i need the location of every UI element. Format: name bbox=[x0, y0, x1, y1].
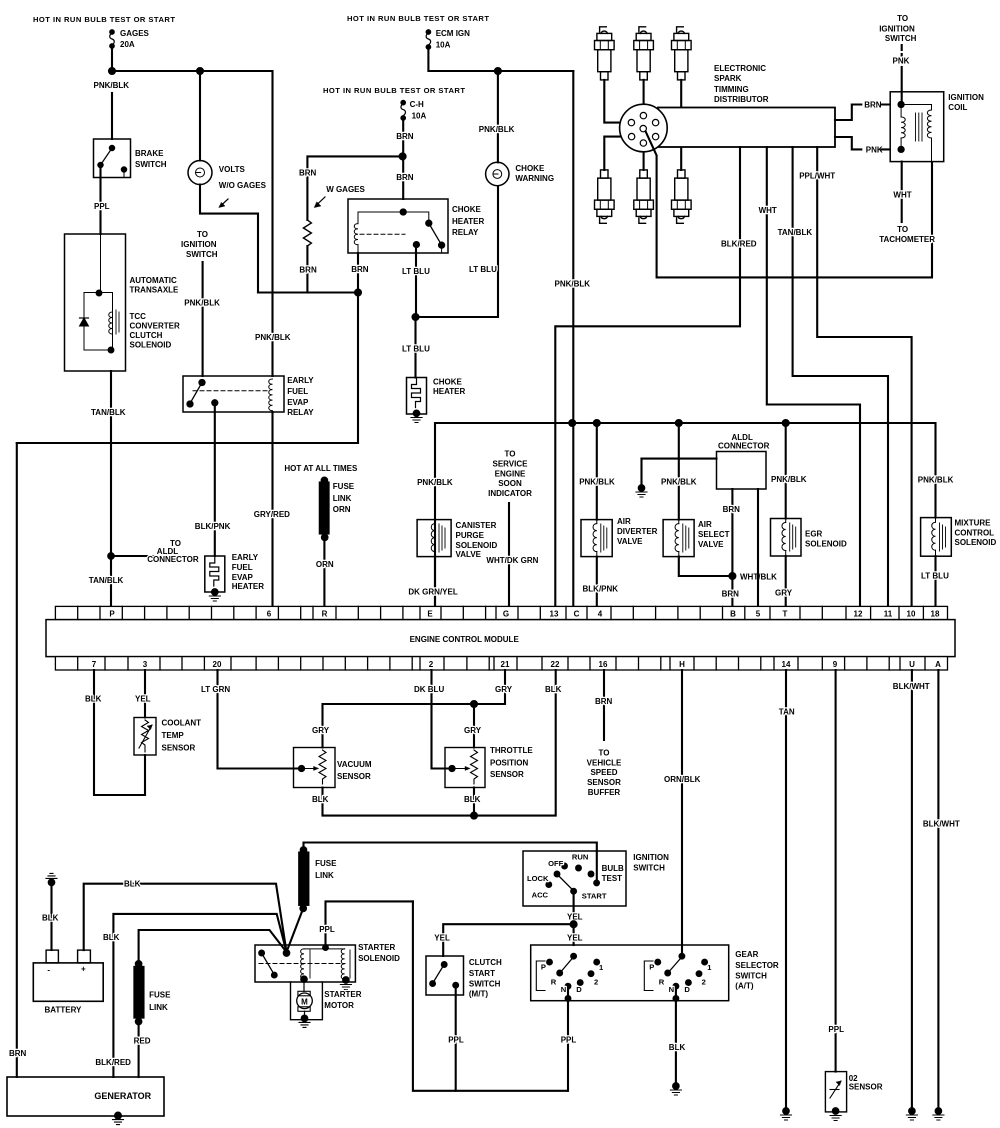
wire PNK/BLK to air diverter valve bbox=[596, 423, 598, 520]
svg-text:TO: TO bbox=[197, 230, 208, 239]
wire PPL to starter solenoid bbox=[326, 901, 413, 947]
svg-text:BLK/WHT: BLK/WHT bbox=[893, 682, 930, 691]
svg-text:P: P bbox=[649, 962, 654, 971]
svg-text:BLK/WHT: BLK/WHT bbox=[923, 820, 960, 829]
svg-text:DK BLU: DK BLU bbox=[414, 685, 444, 694]
svg-text:-: - bbox=[47, 966, 50, 975]
wire ORN fuse link to ECM pin R bbox=[323, 537, 325, 606]
vacuum sensor bbox=[294, 748, 372, 788]
svg-text:PNK/BLK: PNK/BLK bbox=[184, 299, 220, 308]
wire spark plug 4 to distributor bbox=[604, 137, 627, 170]
wire YEL ignition switch down bbox=[573, 891, 575, 945]
ECM bottom pin row bbox=[55, 657, 947, 670]
air diverter valve bbox=[581, 517, 658, 557]
svg-text:HOT AT ALL TIMES: HOT AT ALL TIMES bbox=[284, 464, 358, 473]
svg-text:D: D bbox=[576, 985, 582, 994]
wire WHT distributor to ECM pin 12 bbox=[767, 147, 860, 606]
svg-text:BRN: BRN bbox=[351, 265, 369, 274]
ECM top pin labels bbox=[109, 609, 940, 618]
wire spark plug 2 to distributor bbox=[643, 80, 645, 111]
svg-text:BLK: BLK bbox=[85, 695, 102, 704]
svg-text:TAN: TAN bbox=[779, 707, 795, 716]
svg-text:FUSE: FUSE bbox=[149, 991, 171, 1000]
wire coil secondary: distributor rotor to ignition coil bbox=[646, 131, 932, 277]
svg-text:TEST: TEST bbox=[602, 874, 623, 883]
lamp VOLTS W/O GAGES bbox=[188, 71, 267, 208]
fuse C-H 10A bbox=[401, 100, 427, 121]
svg-text:10: 10 bbox=[907, 609, 916, 618]
svg-text:U: U bbox=[909, 660, 915, 669]
svg-text:SWITCH: SWITCH bbox=[186, 250, 218, 259]
ground at generator bbox=[113, 1113, 124, 1125]
coolant temp sensor bbox=[134, 718, 201, 756]
svg-text:SOLENOID: SOLENOID bbox=[805, 540, 847, 549]
wire BRN resistor down to BRN bus bbox=[306, 246, 308, 293]
svg-text:TAN/BLK: TAN/BLK bbox=[89, 576, 124, 585]
spark plug 1 (top row) bbox=[595, 27, 615, 80]
svg-text:G: G bbox=[503, 609, 509, 618]
svg-text:GENERATOR: GENERATOR bbox=[94, 1091, 151, 1101]
wire BRN branch left to W GAGES resistor bbox=[307, 156, 402, 220]
svg-text:LT BLU: LT BLU bbox=[469, 265, 497, 274]
wire GRY pin 21 to sensors supply bbox=[323, 670, 506, 748]
wire WHT coil to tachometer bbox=[901, 162, 903, 222]
fuse GAGES 20A bbox=[110, 29, 150, 49]
wire WHT/DK GRN service indicator to ECM pin G bbox=[508, 503, 510, 606]
wire PPL gear selector N to bottom bus bbox=[567, 986, 569, 1091]
svg-text:BRN: BRN bbox=[396, 173, 414, 182]
svg-text:SELECTOR: SELECTOR bbox=[735, 961, 779, 970]
svg-text:VALVE: VALVE bbox=[698, 540, 724, 549]
fuse link (starter feed) bbox=[299, 847, 337, 911]
canister purge solenoid valve bbox=[417, 520, 497, 559]
svg-text:BRN: BRN bbox=[723, 505, 741, 514]
wire BRN pin 16 to speed buffer bbox=[603, 670, 605, 740]
svg-text:BRN: BRN bbox=[299, 266, 317, 275]
svg-text:CONNECTOR: CONNECTOR bbox=[147, 555, 199, 564]
svg-text:(M/T): (M/T) bbox=[469, 990, 488, 999]
svg-text:3: 3 bbox=[143, 660, 148, 669]
label TO VEHICLE SPEED SENSOR BUFFER bbox=[587, 749, 622, 797]
junction node GRY (474,704) bbox=[471, 701, 477, 707]
dashed lead from ignition switch bbox=[901, 45, 903, 56]
svg-text:PPL: PPL bbox=[319, 925, 335, 934]
starter motor bbox=[291, 982, 362, 1020]
wire PNK/BLK distribution bus y=423 bbox=[435, 423, 936, 606]
junction node (572.2,423) bbox=[569, 420, 575, 426]
svg-text:7: 7 bbox=[92, 660, 97, 669]
wire spark plug 1 to distributor bbox=[604, 80, 627, 123]
svg-text:PNK/BLK: PNK/BLK bbox=[94, 81, 130, 90]
svg-text:MIXTURE: MIXTURE bbox=[955, 518, 992, 527]
svg-text:SERVICE: SERVICE bbox=[493, 459, 529, 468]
svg-text:BLK/PNK: BLK/PNK bbox=[195, 522, 231, 531]
svg-text:TRANSAXLE: TRANSAXLE bbox=[130, 286, 180, 295]
svg-text:DK GRN/YEL: DK GRN/YEL bbox=[408, 588, 457, 597]
svg-text:VACUUM: VACUUM bbox=[337, 760, 372, 769]
svg-text:TO: TO bbox=[897, 14, 908, 23]
svg-text:14: 14 bbox=[782, 660, 791, 669]
O2 sensor bbox=[825, 1072, 882, 1112]
svg-text:HOT IN RUN BULB TEST OR START: HOT IN RUN BULB TEST OR START bbox=[33, 15, 175, 24]
brake switch BRAKE SWITCH bbox=[94, 139, 167, 178]
TCC converter clutch solenoid (inside transaxle) bbox=[80, 234, 180, 352]
wire BLK/PNK relay to EFE heater bbox=[214, 403, 216, 556]
svg-text:LINK: LINK bbox=[149, 1003, 168, 1012]
svg-text:20: 20 bbox=[213, 660, 222, 669]
svg-text:R: R bbox=[322, 609, 328, 618]
svg-text:BLK: BLK bbox=[312, 795, 329, 804]
svg-text:TAN/BLK: TAN/BLK bbox=[778, 228, 813, 237]
junction dot at gear selector bottom edge (right) bbox=[674, 996, 679, 1001]
ECM bottom pin labels bbox=[92, 660, 941, 669]
svg-text:TCC: TCC bbox=[130, 312, 147, 321]
wire BLK/WHT pin U to ground bbox=[911, 670, 913, 1108]
svg-text:POSITION: POSITION bbox=[490, 759, 528, 768]
svg-text:START: START bbox=[469, 969, 495, 978]
svg-text:IGNITION: IGNITION bbox=[879, 24, 915, 33]
svg-text:GRY/RED: GRY/RED bbox=[254, 510, 290, 519]
svg-text:SENSOR: SENSOR bbox=[849, 1082, 883, 1091]
svg-text:VEHICLE: VEHICLE bbox=[587, 758, 622, 767]
ground at choke heater bbox=[411, 411, 422, 423]
wire horizontal BRN bus y=292.5 bbox=[258, 291, 358, 293]
svg-text:AIR: AIR bbox=[698, 520, 712, 529]
wire LT BLU down to choke heater bbox=[414, 317, 416, 378]
wire GRY branch to TPS bbox=[473, 704, 475, 748]
svg-text:HEATER: HEATER bbox=[232, 582, 265, 591]
svg-text:PURGE: PURGE bbox=[456, 531, 485, 540]
early fuel evap relay box bbox=[183, 376, 314, 417]
svg-text:ORN: ORN bbox=[333, 505, 351, 514]
wire PNK/BLK to EGR solenoid bbox=[785, 423, 787, 519]
spark plug 5 (bottom row) bbox=[634, 170, 654, 223]
wire BLK battery negative to ground bbox=[50, 882, 52, 950]
svg-text:BRN: BRN bbox=[864, 101, 882, 110]
ECM main box ENGINE CONTROL MODULE bbox=[46, 620, 955, 657]
ALDL connector box bbox=[717, 433, 770, 489]
svg-text:AUTOMATIC: AUTOMATIC bbox=[130, 276, 177, 285]
svg-text:LINK: LINK bbox=[333, 494, 352, 503]
svg-text:WHT: WHT bbox=[893, 190, 911, 199]
wire branch to ALDL connector bbox=[111, 555, 156, 557]
svg-text:GRY: GRY bbox=[464, 726, 482, 735]
svg-text:PPL/WHT: PPL/WHT bbox=[799, 172, 835, 181]
wire BLK generator to starter solenoid bbox=[113, 914, 286, 1077]
ignition switch box bbox=[523, 851, 669, 906]
spark plug 6 (bottom row) bbox=[672, 170, 692, 223]
svg-text:SWITCH: SWITCH bbox=[633, 863, 665, 872]
wire PNK/BLK x=573.3 down to ECM pin C bbox=[572, 71, 574, 606]
wire DK GRN/YEL to ECM pin E bbox=[434, 557, 436, 606]
ground at gear selector BLK bbox=[670, 1083, 681, 1095]
wire PPL clutch switch to bottom bus bbox=[455, 985, 457, 1091]
wire PPL pin 9 to O2 sensor bbox=[835, 670, 837, 1072]
svg-text:R: R bbox=[551, 977, 557, 986]
wire spark plug 5 to distributor bbox=[643, 148, 645, 170]
svg-text:GAGES: GAGES bbox=[120, 29, 150, 38]
svg-text:P: P bbox=[541, 962, 546, 971]
junction node LT BLU (415.5,317) bbox=[413, 314, 419, 320]
ground at pin A wire bbox=[933, 1108, 944, 1120]
svg-text:COIL: COIL bbox=[948, 103, 967, 112]
svg-text:BULB: BULB bbox=[602, 864, 624, 873]
svg-text:PNK/BLK: PNK/BLK bbox=[661, 477, 697, 486]
svg-text:DIVERTER: DIVERTER bbox=[617, 527, 658, 536]
clutch start switch bbox=[426, 956, 502, 999]
svg-text:BLK/PNK: BLK/PNK bbox=[583, 585, 619, 594]
svg-text:LT BLU: LT BLU bbox=[921, 572, 949, 581]
wire horizontal bus y=71 to x=272 bbox=[112, 70, 272, 72]
svg-text:VOLTS: VOLTS bbox=[219, 165, 246, 174]
junction node choke warning branch (497.9,71) bbox=[495, 68, 501, 74]
svg-text:CANISTER: CANISTER bbox=[456, 521, 497, 530]
mixture control solenoid bbox=[921, 518, 997, 557]
svg-text:STARTER: STARTER bbox=[358, 943, 395, 952]
svg-text:LOCK: LOCK bbox=[527, 874, 549, 883]
wire fuse link to starter solenoid terminal bbox=[287, 908, 304, 952]
svg-text:EGR: EGR bbox=[805, 530, 823, 539]
gear selector switch box bbox=[531, 945, 779, 1001]
svg-text:+: + bbox=[81, 965, 86, 974]
svg-text:SOLENOID: SOLENOID bbox=[456, 541, 498, 550]
wire BLK ECM pin 7 to coolant sensor return bbox=[94, 670, 145, 795]
svg-text:21: 21 bbox=[501, 660, 510, 669]
terminal link PNK distributor to ignition coil bbox=[835, 137, 901, 154]
svg-text:BRN: BRN bbox=[595, 697, 613, 706]
ground at starter solenoid bbox=[340, 985, 351, 990]
svg-text:CLUTCH: CLUTCH bbox=[469, 958, 502, 967]
junction node (596.8,423) bbox=[594, 420, 600, 426]
svg-text:VALVE: VALVE bbox=[617, 537, 643, 546]
svg-text:CONNECTOR: CONNECTOR bbox=[718, 442, 770, 451]
wire PPL/WHT distributor to ECM pin 10 bbox=[817, 147, 911, 606]
svg-text:BRN: BRN bbox=[9, 1049, 27, 1058]
svg-text:N: N bbox=[561, 985, 566, 994]
wire PNK into ignition coil bbox=[901, 67, 903, 105]
svg-text:WHT/DK GRN: WHT/DK GRN bbox=[486, 556, 538, 565]
svg-text:P: P bbox=[109, 609, 115, 618]
svg-text:LINK: LINK bbox=[315, 871, 334, 880]
wire PPL brake switch to transaxle bbox=[99, 167, 101, 234]
svg-text:13: 13 bbox=[550, 609, 559, 618]
wire DK BLU pin 2 to TPS bbox=[432, 670, 451, 769]
svg-text:C-H: C-H bbox=[410, 100, 424, 109]
svg-text:12: 12 bbox=[854, 609, 863, 618]
svg-text:FUEL: FUEL bbox=[287, 387, 308, 396]
svg-text:T: T bbox=[783, 609, 788, 618]
svg-text:GRY: GRY bbox=[775, 589, 793, 598]
wire RED fuse link to generator bbox=[138, 1022, 140, 1078]
svg-text:TEMP: TEMP bbox=[162, 731, 185, 740]
spark plug 2 (top row) bbox=[634, 27, 654, 80]
svg-text:CHOKE: CHOKE bbox=[515, 164, 545, 173]
svg-text:RED: RED bbox=[134, 1036, 151, 1045]
svg-text:BRN: BRN bbox=[299, 169, 317, 178]
svg-text:AIR: AIR bbox=[617, 517, 631, 526]
wire TO IGNITION SWITCH to EFE relay bbox=[202, 262, 204, 376]
svg-text:LT BLU: LT BLU bbox=[402, 345, 430, 354]
svg-text:PNK/BLK: PNK/BLK bbox=[255, 333, 291, 342]
fuse link ORN bbox=[320, 478, 355, 541]
svg-text:SENSOR: SENSOR bbox=[162, 744, 196, 753]
svg-text:EVAP: EVAP bbox=[232, 573, 254, 582]
svg-text:2: 2 bbox=[429, 660, 434, 669]
svg-text:BLK: BLK bbox=[669, 1043, 686, 1052]
ignition coil U1 bbox=[890, 92, 984, 162]
svg-text:N: N bbox=[669, 985, 674, 994]
wire spark plug 6 to distributor bbox=[660, 137, 681, 170]
svg-text:BLK: BLK bbox=[545, 685, 562, 694]
wire BRN ALDL to ECM pin B bbox=[731, 489, 733, 606]
gear selector left bank contacts bbox=[536, 954, 604, 994]
svg-text:IGNITION: IGNITION bbox=[181, 240, 217, 249]
wire PPL bottom bus bbox=[413, 901, 567, 1090]
svg-text:W GAGES: W GAGES bbox=[326, 185, 365, 194]
svg-text:TAN/BLK: TAN/BLK bbox=[91, 408, 126, 417]
junction node YEL (575.2,924.2) bbox=[571, 921, 577, 927]
svg-text:BLK: BLK bbox=[124, 880, 141, 889]
svg-text:SWITCH: SWITCH bbox=[469, 980, 501, 989]
svg-text:H: H bbox=[679, 660, 685, 669]
ground at battery negative bbox=[46, 873, 57, 885]
distributor cap circle bbox=[620, 104, 668, 152]
wire LT GRN pin 20 to vacuum sensor bbox=[218, 670, 300, 769]
label W GAGES with arrow bbox=[314, 185, 365, 208]
svg-text:INDICATOR: INDICATOR bbox=[488, 489, 532, 498]
svg-text:ENGINE: ENGINE bbox=[495, 469, 526, 478]
svg-text:SENSOR: SENSOR bbox=[587, 778, 621, 787]
svg-text:PNK/BLK: PNK/BLK bbox=[579, 477, 615, 486]
svg-text:VALVE: VALVE bbox=[456, 550, 482, 559]
wire air select valve to WHT/BLK junction bbox=[679, 557, 733, 576]
terminal link BRN distributor to ignition coil bbox=[835, 101, 901, 121]
resistor W GAGES bbox=[303, 220, 311, 246]
svg-text:SENSOR: SENSOR bbox=[337, 772, 371, 781]
throttle position sensor bbox=[445, 746, 533, 788]
wire BLK gear selector right N to ground bbox=[675, 986, 677, 1083]
svg-text:IGNITION: IGNITION bbox=[948, 93, 984, 102]
svg-text:16: 16 bbox=[599, 660, 608, 669]
wire BRN relay coil output down to BRN bus bbox=[357, 253, 359, 293]
ground branch at ALDL bbox=[636, 459, 647, 497]
svg-text:EVAP: EVAP bbox=[287, 398, 309, 407]
wire TAN/BLK distributor to ECM pin 11 bbox=[793, 147, 888, 606]
fuse link (generator RED) bbox=[134, 961, 171, 1024]
svg-text:PNK/BLK: PNK/BLK bbox=[479, 125, 515, 134]
wire ECM IGN to PNK/BLK bus bbox=[428, 47, 573, 71]
svg-text:TACHOMETER: TACHOMETER bbox=[879, 235, 935, 244]
wire BRN from junction down to y=443 bus bbox=[357, 293, 359, 444]
svg-text:MOTOR: MOTOR bbox=[324, 1001, 354, 1010]
svg-text:IGNITION: IGNITION bbox=[633, 853, 669, 862]
svg-text:PPL: PPL bbox=[828, 1025, 844, 1034]
wire ORN/BLK pin H to gear selector switch bbox=[681, 670, 683, 956]
svg-text:COOLANT: COOLANT bbox=[162, 719, 202, 728]
svg-text:RELAY: RELAY bbox=[452, 228, 479, 237]
wire BRN from C-H fuse down bbox=[402, 118, 404, 199]
wire TAN/BLK transaxle down to ECM pin P bbox=[110, 371, 112, 606]
gear selector right bank contacts bbox=[644, 954, 712, 994]
svg-text:R: R bbox=[659, 977, 665, 986]
svg-text:5: 5 bbox=[756, 609, 761, 618]
junction node (785.7,423) bbox=[783, 420, 789, 426]
wire ALDL to ECM pin 5 bbox=[757, 489, 759, 606]
svg-text:BATTERY: BATTERY bbox=[45, 1006, 83, 1015]
wire long horizontal bus y=443 bbox=[17, 442, 358, 444]
choke heater relay internals bbox=[354, 209, 444, 253]
generator bbox=[7, 1077, 164, 1116]
label TO SERVICE ENGINE SOON INDICATOR bbox=[488, 450, 532, 498]
svg-text:W/O GAGES: W/O GAGES bbox=[219, 181, 267, 190]
svg-text:6: 6 bbox=[267, 609, 272, 618]
svg-text:HOT IN RUN BULB TEST OR START: HOT IN RUN BULB TEST OR START bbox=[347, 14, 489, 23]
svg-text:4: 4 bbox=[598, 609, 603, 618]
svg-text:GEAR: GEAR bbox=[735, 950, 758, 959]
svg-text:FUSE: FUSE bbox=[333, 482, 355, 491]
label TO TACHOMETER bbox=[879, 225, 935, 244]
svg-text:HOT IN RUN BULB TEST OR START: HOT IN RUN BULB TEST OR START bbox=[323, 86, 465, 95]
svg-text:SOLENOID: SOLENOID bbox=[955, 538, 997, 547]
svg-text:SWITCH: SWITCH bbox=[885, 34, 917, 43]
svg-text:ELECTRONIC: ELECTRONIC bbox=[714, 64, 766, 73]
svg-text:PNK/BLK: PNK/BLK bbox=[771, 475, 807, 484]
label TO IGNITION SWITCH (coil) bbox=[879, 14, 916, 43]
svg-text:SWITCH: SWITCH bbox=[735, 971, 767, 980]
svg-text:HEATER: HEATER bbox=[452, 217, 485, 226]
svg-text:10A: 10A bbox=[412, 112, 427, 121]
wire branch to choke warning lamp bbox=[416, 186, 499, 317]
wire BLK pin 22 to sensor grounds bbox=[323, 670, 556, 816]
svg-text:PNK: PNK bbox=[866, 145, 883, 154]
wire PNK/BLK to air select valve bbox=[678, 423, 680, 520]
svg-text:BLK/RED: BLK/RED bbox=[721, 240, 757, 249]
svg-text:THROTTLE: THROTTLE bbox=[490, 746, 533, 755]
svg-text:LT GRN: LT GRN bbox=[201, 685, 230, 694]
svg-text:PPL: PPL bbox=[448, 1036, 464, 1045]
svg-text:SOLENOID: SOLENOID bbox=[130, 341, 172, 350]
svg-text:ENGINE CONTROL MODULE: ENGINE CONTROL MODULE bbox=[410, 635, 520, 644]
svg-text:BRAKE: BRAKE bbox=[135, 149, 164, 158]
svg-text:RUN: RUN bbox=[572, 853, 588, 862]
ECM top pin row bbox=[55, 606, 947, 619]
svg-text:PNK/BLK: PNK/BLK bbox=[555, 280, 591, 289]
svg-text:22: 22 bbox=[551, 660, 560, 669]
svg-text:HEATER: HEATER bbox=[433, 387, 466, 396]
ground at TAN wire bbox=[781, 1108, 792, 1120]
svg-text:PNK/BLK: PNK/BLK bbox=[918, 475, 954, 484]
early fuel evap heater element bbox=[205, 553, 264, 592]
svg-text:ECM IGN: ECM IGN bbox=[436, 29, 470, 38]
svg-text:YEL: YEL bbox=[567, 933, 583, 942]
choke heater relay box bbox=[348, 199, 485, 253]
wire GRY/RED relay to ECM pin 6 bbox=[271, 412, 273, 606]
lamp CHOKE WARNING bbox=[486, 71, 554, 186]
svg-text:BUFFER: BUFFER bbox=[588, 788, 621, 797]
svg-text:CONVERTER: CONVERTER bbox=[130, 322, 180, 331]
spark plug 4 (bottom row) bbox=[595, 170, 615, 223]
spark plug 3 (top row) bbox=[672, 27, 692, 80]
svg-text:BRN: BRN bbox=[396, 132, 414, 141]
wire BLK branch TPS bottom bbox=[473, 788, 475, 816]
svg-text:ORN: ORN bbox=[316, 560, 334, 569]
junction node at (112,71) bbox=[109, 68, 115, 74]
svg-text:YEL: YEL bbox=[434, 933, 450, 942]
wire BLK/RED distributor to ECM pin 13 bbox=[555, 147, 740, 606]
junction dot at gear selector bottom edge (left) bbox=[566, 996, 571, 1001]
wire LT BLU mixture control to ECM pin 18 bbox=[934, 556, 936, 606]
junction node at (200,71) VOLTS branch bbox=[197, 68, 203, 74]
